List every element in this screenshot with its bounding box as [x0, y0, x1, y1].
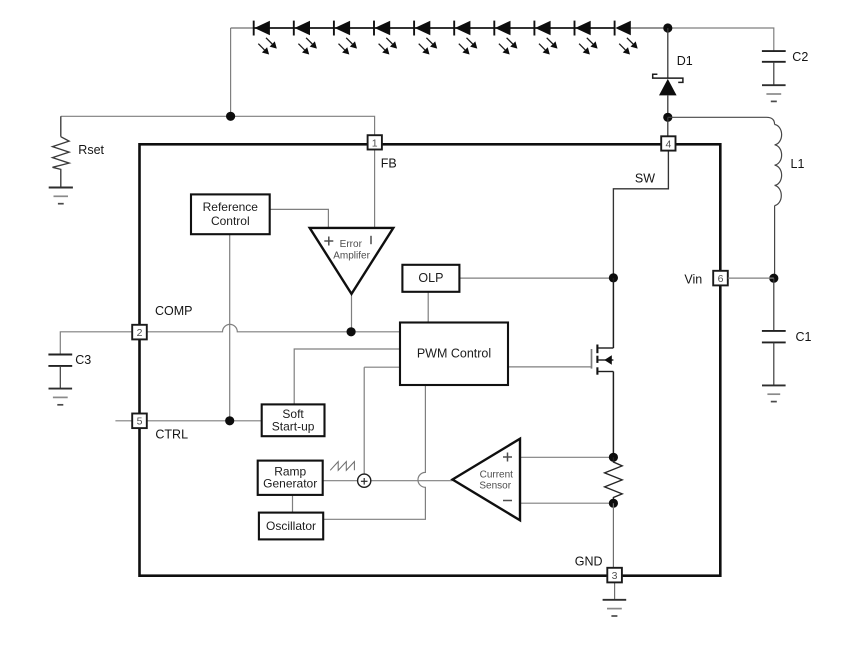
capacitor C3 plates — [48, 355, 72, 366]
svg-text:C3: C3 — [75, 353, 91, 367]
wire: COMP line outside to C3 — [60, 332, 132, 355]
ground below C1 — [762, 385, 786, 401]
wire: LED feed segment — [231, 27, 255, 29]
svg-text:Rset: Rset — [78, 143, 104, 157]
IC body outline — [140, 144, 721, 575]
junction: sense resistor top / current sensor + — [609, 453, 618, 462]
LED D3 (series LED 2) — [294, 21, 334, 55]
summing node (adder) — [358, 474, 371, 487]
svg-text:Current: Current — [480, 469, 514, 480]
wire: reference control to error amp non-inverting input — [270, 209, 329, 228]
wire: summing node to current sensor input — [371, 480, 453, 482]
ground below pin 3 — [603, 600, 627, 616]
wire: C1 to ground — [773, 342, 775, 385]
junction: error amp output on COMP line — [347, 327, 356, 336]
LED D6 (series LED 5) — [414, 21, 454, 55]
wire: top node to C2 — [668, 28, 774, 51]
block: Soft Start-up — [262, 404, 325, 436]
svg-text:1: 1 — [372, 137, 378, 149]
wire: SW rail to MOSFET drain — [612, 278, 614, 348]
wire: soft start-up to PWM control — [294, 349, 400, 404]
junction: SW rail / OLP node — [609, 273, 618, 282]
wire: pin 6 to Vin node — [728, 277, 774, 279]
svg-text:Control: Control — [211, 214, 250, 228]
svg-text:Sensor: Sensor — [479, 481, 511, 492]
svg-text:Error: Error — [340, 239, 363, 250]
wire: OLP output to SW rail — [459, 277, 613, 279]
pin 1 (FB) — [368, 135, 382, 149]
junction: Rset node on FB line — [226, 112, 235, 121]
wire: OLP down to PWM control — [427, 292, 429, 323]
block: Oscillator — [259, 513, 323, 540]
svg-text:5: 5 — [137, 416, 143, 428]
LED D11 (series LED 10) — [615, 21, 638, 55]
wire: COMP line from pin 2 to PWM control (hop over vertical) — [147, 324, 400, 331]
svg-text:Reference: Reference — [203, 200, 259, 214]
wire: top node down to D1 — [667, 28, 669, 78]
LED D5 (series LED 4) — [374, 21, 414, 55]
wire: CTRL line pin 5 to soft start-up — [147, 420, 262, 422]
ground below Rset — [49, 188, 73, 204]
wire: LED anode to D1 node — [631, 27, 668, 29]
pin 2 (COMP) — [132, 325, 147, 340]
svg-text:PWM Control: PWM Control — [417, 347, 491, 361]
pin 3 (GND) — [607, 568, 622, 583]
svg-text:Amplifer: Amplifer — [333, 251, 370, 262]
svg-text:L1: L1 — [791, 157, 805, 171]
wire: summing node to PWM control — [364, 367, 400, 474]
wire: ramp generator to oscillator — [292, 495, 294, 513]
wire: MOSFET source to sense resistor — [612, 372, 614, 458]
transistor Q1 (power MOSFET) — [597, 345, 613, 375]
svg-text:6: 6 — [718, 273, 724, 285]
LED D9 (series LED 8) — [534, 21, 574, 55]
ground below C3 — [49, 389, 73, 405]
wire: PWM control to MOSFET gate — [508, 366, 592, 368]
junction: Vin / L1 / C1 node — [769, 274, 778, 283]
wire: oscillator to PWM control (detour around crossing) — [323, 385, 425, 519]
MOSFET Q1 gate bar — [591, 349, 593, 369]
sawtooth ramp symbol — [330, 462, 354, 471]
LED D2 (series LED 1) — [254, 21, 294, 55]
wire: pin 4 to SW rail — [613, 151, 668, 278]
wire: ramp generator to summing node — [323, 480, 358, 482]
diode D1 (Schottky) — [653, 74, 683, 117]
LED D4 (series LED 3) — [334, 21, 374, 55]
svg-text:Oscillator: Oscillator — [266, 519, 316, 533]
svg-text:2: 2 — [137, 327, 143, 339]
svg-text:FB: FB — [381, 156, 397, 170]
wire: CTRL stub outside pin 5 — [115, 420, 132, 422]
svg-text:COMP: COMP — [155, 304, 193, 318]
svg-text:Start-up: Start-up — [272, 419, 315, 433]
LED D7 (series LED 6) — [454, 21, 494, 55]
svg-text:D1: D1 — [677, 54, 693, 68]
pin 6 (Vin) — [713, 271, 728, 286]
junction: reference line on CTRL line — [225, 416, 234, 425]
pin 5 (CTRL) — [132, 414, 147, 429]
svg-text:4: 4 — [665, 138, 671, 150]
wire: current sensor - output — [520, 502, 613, 504]
wire: Vin node down to C1 — [773, 278, 775, 331]
op-amp U2 Current Sensor — [453, 439, 521, 521]
svg-text:C1: C1 — [796, 330, 812, 344]
op-amp U1 Error Amplifer — [310, 228, 394, 294]
capacitor C1 plates — [762, 331, 786, 343]
block: OLP — [402, 265, 459, 292]
LED D8 (series LED 7) — [494, 21, 534, 55]
wire: reference control down to CTRL node — [229, 234, 231, 421]
svg-text:3: 3 — [612, 570, 618, 582]
LED D10 (series LED 9) — [575, 21, 615, 55]
svg-text:Generator: Generator — [263, 477, 317, 491]
wire: current sensor + output — [520, 456, 613, 458]
ground below C2 — [762, 85, 786, 101]
junction: sense resistor bottom / current sensor - — [609, 499, 618, 508]
wire: LED string left drop — [230, 28, 232, 116]
junction: D1 cathode / SW / L1 node — [663, 113, 672, 122]
block: Reference Control — [191, 194, 270, 234]
wire: node to pin 4 — [667, 117, 669, 136]
svg-text:OLP: OLP — [418, 271, 443, 285]
svg-text:Vin: Vin — [684, 273, 702, 287]
svg-text:C2: C2 — [792, 50, 808, 64]
inductor L1 — [668, 117, 782, 278]
pin 4 (SW) — [661, 136, 675, 150]
block: PWM Control — [400, 323, 508, 386]
svg-text:GND: GND — [575, 555, 603, 569]
wire: FB drop from pin 1 to error amp inverting input — [374, 150, 376, 228]
capacitor C2 plates — [762, 51, 786, 62]
wire: C3 to ground — [59, 366, 61, 389]
block: Ramp Generator — [258, 461, 323, 495]
wire: FB horizontal from Rset to pin 1 — [61, 116, 375, 135]
wire: error amp output to COMP line — [351, 294, 353, 332]
resistor Rset — [53, 116, 70, 187]
wire: pin 3 to ground — [614, 582, 616, 599]
resistor Rsense (current sense) — [605, 457, 623, 503]
svg-text:SW: SW — [635, 172, 655, 186]
wire: C2 to ground — [773, 62, 775, 85]
junction: LED string / D1 / C2 node — [663, 23, 672, 32]
svg-text:CTRL: CTRL — [155, 428, 188, 442]
wire: sense resistor to pin 3 — [612, 503, 614, 568]
